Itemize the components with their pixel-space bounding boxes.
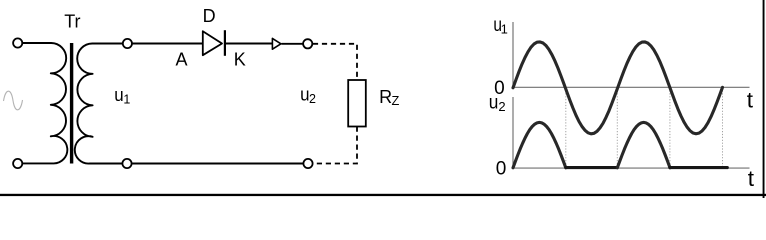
svg-text:Tr: Tr	[64, 11, 80, 31]
table border bottom	[0, 194, 766, 196]
svg-text:t: t	[748, 166, 755, 191]
u1 sine waveform	[513, 42, 723, 134]
svg-text:u: u	[489, 92, 499, 113]
svg-text:1: 1	[501, 21, 508, 36]
svg-text:A: A	[176, 49, 188, 69]
dashed wire top to resistor	[313, 44, 357, 80]
wire diode to arrow	[226, 43, 272, 45]
u2 zero segment 2	[670, 166, 727, 169]
terminal output top	[303, 39, 312, 48]
dotted guide line at third zero crossing	[669, 88, 671, 168]
bottom wire secondary to output terminal	[132, 163, 303, 165]
current direction arrow	[272, 38, 281, 49]
graph u1 y-axis	[512, 22, 514, 88]
table border right	[763, 0, 765, 198]
svg-text:2: 2	[309, 92, 316, 106]
transformer core	[70, 43, 73, 164]
graph u2 y-axis	[512, 97, 514, 169]
u2 rectified waveform second hump	[617, 122, 670, 167]
diode D cathode bar	[224, 30, 226, 56]
dotted guide line at first zero crossing	[565, 88, 567, 168]
terminal output bottom	[303, 159, 312, 168]
svg-text:1: 1	[123, 92, 130, 106]
svg-text:2: 2	[498, 99, 505, 114]
svg-text:K: K	[234, 49, 246, 69]
svg-text:u: u	[114, 85, 123, 105]
svg-text:0: 0	[496, 159, 507, 180]
dotted guide line at second zero crossing	[616, 88, 618, 168]
u2 rectified waveform first hump	[513, 122, 566, 167]
graph u1 time axis	[513, 86, 750, 88]
terminal bottom-left	[13, 159, 22, 168]
svg-text:t: t	[747, 87, 754, 112]
wire secondary top to diode	[133, 43, 203, 45]
terminal secondary top	[123, 39, 132, 48]
diode D anode triangle	[203, 31, 222, 55]
AC source sine squiggle	[4, 91, 23, 110]
dashed wire resistor to bottom terminal	[313, 127, 357, 164]
svg-text:D: D	[203, 6, 216, 26]
wire arrow to terminal	[282, 43, 304, 45]
dotted guide line at fourth zero crossing	[722, 88, 724, 168]
resistor RZ body	[348, 80, 366, 127]
terminal top-left	[13, 38, 22, 47]
wire + transformer primary winding	[23, 43, 68, 163]
graph u2 time axis	[513, 167, 750, 169]
transformer secondary winding + wires	[75, 44, 123, 164]
u2 zero segment 1	[566, 166, 618, 169]
terminal secondary bottom	[122, 159, 131, 168]
